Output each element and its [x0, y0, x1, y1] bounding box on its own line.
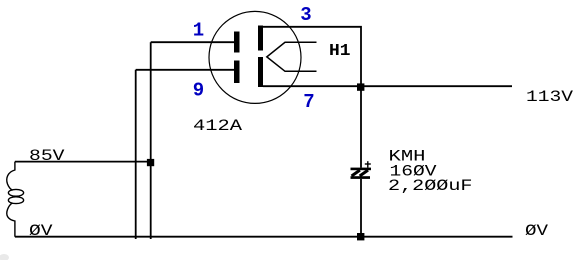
svg-text:H1: H1 — [329, 41, 351, 60]
svg-text:113V: 113V — [526, 88, 573, 106]
svg-text:9: 9 — [193, 79, 204, 101]
svg-text:412A: 412A — [193, 117, 243, 135]
svg-text:85V: 85V — [29, 147, 65, 165]
svg-text:1: 1 — [193, 20, 204, 42]
svg-text:7: 7 — [303, 91, 314, 113]
svg-text:2,2ØØuF: 2,2ØØuF — [388, 177, 473, 195]
svg-text:ØV: ØV — [525, 222, 548, 240]
svg-text:3: 3 — [300, 4, 311, 26]
svg-text:ØV: ØV — [29, 222, 53, 240]
